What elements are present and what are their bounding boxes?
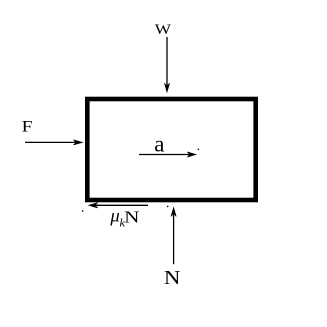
svg-text:N: N [164, 266, 181, 289]
svg-text:F: F [22, 117, 33, 135]
svg-text:N: N [124, 209, 140, 227]
svg-text:μ: μ [109, 206, 119, 226]
svg-text:W: W [155, 21, 172, 38]
svg-text:a: a [154, 132, 164, 157]
